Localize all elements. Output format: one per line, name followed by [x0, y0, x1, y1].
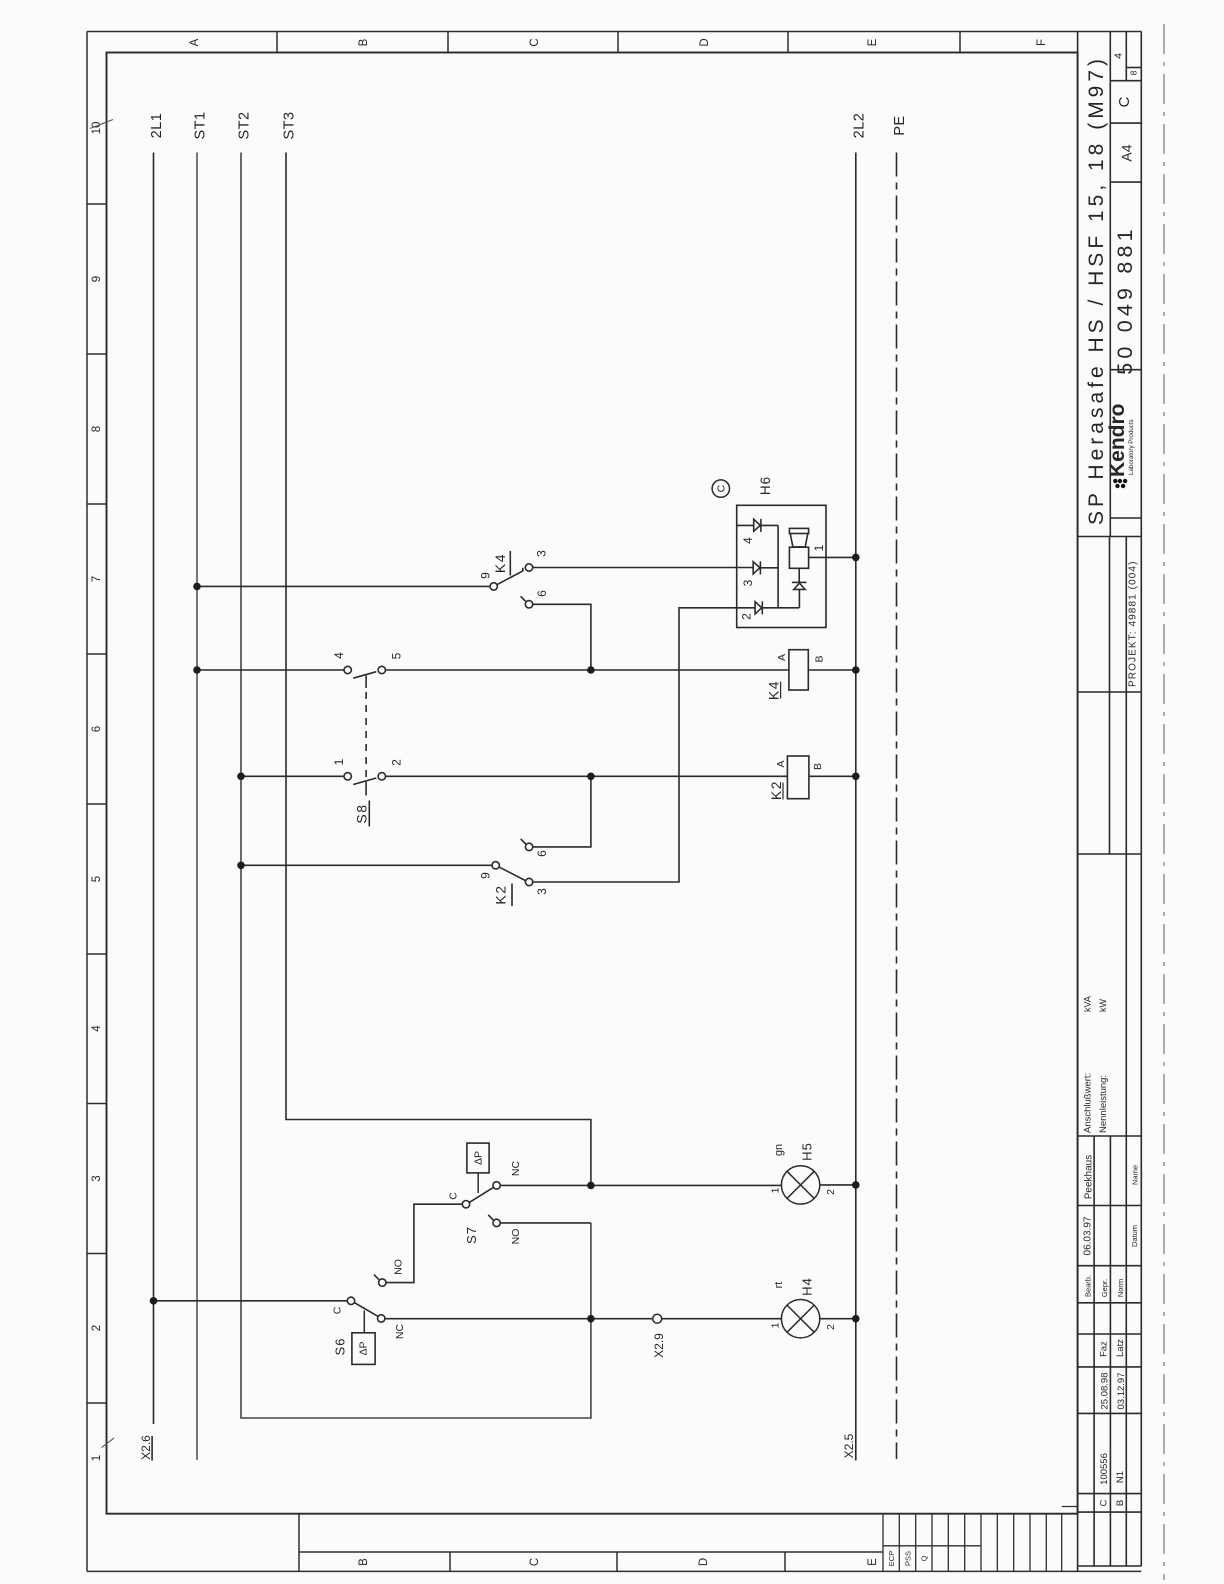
- svg-text:Gepr.: Gepr.: [1100, 1279, 1109, 1297]
- junction ST1/S8-4: [193, 666, 201, 674]
- svg-text:D: D: [699, 38, 711, 46]
- wire 2L1 to S6-C: [154, 1300, 348, 1302]
- wire S8-5 to K4 coil: [386, 669, 789, 671]
- TITLE BLOCK BAND: [1078, 32, 1142, 1572]
- filing strip fine grid: [883, 1507, 1078, 1572]
- junction ST2/S8-1: [237, 773, 245, 781]
- svg-text:E: E: [867, 38, 879, 46]
- svg-text:S6: S6: [333, 1338, 348, 1356]
- svg-text:03.12.97: 03.12.97: [1116, 1373, 1127, 1410]
- svg-text:Kendro: Kendro: [1106, 404, 1129, 478]
- svg-text:K4: K4: [492, 553, 508, 573]
- svg-text:4: 4: [332, 652, 346, 659]
- svg-text:2: 2: [825, 1324, 837, 1330]
- svg-text:C: C: [332, 1306, 344, 1314]
- svg-text:S7: S7: [464, 1226, 479, 1244]
- junction 2L2/K4 coil: [852, 666, 860, 674]
- switch S8 pole 1-2: [344, 773, 385, 827]
- junction ST2/K2-9: [237, 862, 245, 870]
- svg-text:K2: K2: [768, 780, 784, 800]
- wire ST1 to S8 contact 4-5: [197, 669, 344, 671]
- svg-text:rt: rt: [773, 1282, 785, 1289]
- K4 coil label underline: [780, 682, 782, 699]
- fold mark top-left: [90, 120, 113, 129]
- wire H5 to 2L2: [820, 1184, 856, 1186]
- sheet cells: [1125, 32, 1127, 81]
- wire S7-NC to H5: [500, 1184, 781, 1186]
- svg-text:3: 3: [535, 550, 549, 557]
- svg-text:2L1: 2L1: [149, 113, 165, 139]
- wire K2-6 branch: [533, 776, 591, 847]
- S6 actuator link: [363, 1311, 365, 1333]
- junction 2L1/S6-C line: [150, 1297, 158, 1305]
- wire S6-NC to X2.9: [385, 1318, 653, 1320]
- pressure switch S7 dP box: [467, 1143, 489, 1173]
- svg-text:3: 3: [741, 579, 755, 586]
- junction S7-NO/H4 line: [587, 1315, 595, 1323]
- svg-text:Laboratory Products: Laboratory Products: [1128, 419, 1135, 475]
- svg-text:E: E: [867, 1558, 879, 1566]
- svg-text:9: 9: [479, 872, 493, 879]
- svg-text:A: A: [189, 38, 201, 46]
- svg-text:F: F: [1036, 39, 1048, 46]
- svg-text:C: C: [715, 484, 727, 492]
- svg-text:X2.5: X2.5: [842, 1433, 856, 1458]
- relay contact K2: [492, 839, 533, 906]
- svg-text:9: 9: [479, 572, 493, 579]
- svg-text:06.03.97: 06.03.97: [1083, 1216, 1094, 1255]
- svg-text:3: 3: [535, 888, 549, 895]
- filing strip labels: [887, 1551, 929, 1566]
- svg-text:PSS: PSS: [903, 1551, 912, 1566]
- Kendro logo: [1106, 404, 1135, 489]
- approval table: [1078, 1135, 1142, 1137]
- rail 2L2: [855, 153, 857, 1461]
- S7 actuator link: [477, 1173, 479, 1193]
- svg-text:NO: NO: [510, 1229, 522, 1245]
- terminal X2.9: [653, 1314, 662, 1323]
- wire K2 coil to 2L2: [809, 775, 856, 777]
- svg-text:C: C: [1099, 1499, 1110, 1506]
- svg-text:B: B: [814, 655, 826, 662]
- rail ST3: [286, 153, 591, 1186]
- lamp H5: [781, 1166, 819, 1204]
- svg-text:Name: Name: [1131, 1165, 1140, 1185]
- paper right edge dashed: [1163, 24, 1165, 1580]
- svg-text:B: B: [1115, 1500, 1126, 1506]
- signal unit H6: [737, 505, 826, 627]
- junction ST3/S7-NC line: [587, 1182, 595, 1190]
- svg-text:A: A: [775, 760, 787, 767]
- wire K4 coil to 2L2: [808, 669, 856, 671]
- svg-text:1: 1: [91, 1455, 103, 1461]
- svg-text:NC: NC: [394, 1324, 406, 1340]
- pressure switch S6 dP box: [352, 1333, 375, 1365]
- wire H6 pin1 to 2L2: [809, 556, 856, 558]
- svg-text:SP Herasafe HS / HSF 15, 18: SP Herasafe HS / HSF 15, 18 (M97): [1085, 55, 1108, 525]
- svg-text:6: 6: [535, 590, 549, 597]
- svg-text:4: 4: [91, 1025, 103, 1032]
- svg-text:4: 4: [1113, 53, 1125, 59]
- buzzer series diode: [798, 568, 800, 582]
- rail PE dashed: [896, 153, 898, 1460]
- svg-text:ΔP: ΔP: [358, 1341, 370, 1355]
- wire ST2 to K2 contact: [241, 864, 492, 866]
- svg-text:5: 5: [91, 876, 103, 882]
- svg-text:50 049 881: 50 049 881: [1113, 225, 1137, 375]
- wire ST1 to K4 contact: [197, 585, 490, 587]
- svg-text:ΔP: ΔP: [473, 1151, 485, 1165]
- wire S7-NO down: [500, 1222, 591, 1224]
- left grid numbers 10-1: [91, 122, 103, 1462]
- terminal X2.6 underline: [151, 1436, 153, 1461]
- wire ST2 to S8 contact 1-2: [241, 775, 344, 777]
- svg-text:ECP: ECP: [887, 1551, 896, 1566]
- svg-text:Datum: Datum: [1130, 1225, 1139, 1247]
- svg-text:2: 2: [825, 1189, 837, 1195]
- junction K2-6/K2 coil line: [587, 773, 595, 781]
- title block bottom: [1078, 536, 1142, 538]
- svg-text:H6: H6: [758, 476, 773, 495]
- svg-text:NO: NO: [393, 1259, 405, 1275]
- svg-text:Nennleistung:: Nennleistung:: [1098, 1075, 1109, 1133]
- junction K4-6/K4 coil line: [587, 666, 595, 674]
- H6 internal bus: [777, 525, 779, 607]
- svg-text:K2: K2: [493, 884, 509, 904]
- top grid letters A-F: [189, 38, 1048, 46]
- rail 2L1: [153, 153, 155, 1425]
- svg-text:B: B: [812, 763, 824, 770]
- junction 2L2/K2 coil: [852, 773, 860, 781]
- junction 2L2/H5: [852, 1181, 860, 1189]
- svg-text:8: 8: [91, 426, 103, 432]
- svg-text:1: 1: [332, 758, 346, 765]
- svg-text:Q: Q: [920, 1555, 929, 1561]
- svg-text:100556: 100556: [1099, 1453, 1110, 1485]
- title column divider: [1109, 32, 1111, 537]
- wire S8-2 to K2 coil: [386, 775, 788, 777]
- svg-text:C: C: [529, 38, 541, 46]
- junction ST1/K4-9: [193, 583, 201, 591]
- bottom grid strip dividers: [299, 1514, 883, 1572]
- svg-text:4: 4: [741, 537, 755, 544]
- svg-text:kW: kW: [1098, 999, 1108, 1013]
- svg-text:5: 5: [390, 652, 404, 659]
- wire K4-6 branch: [533, 604, 591, 670]
- svg-text:S8: S8: [354, 803, 370, 823]
- svg-text:10: 10: [91, 122, 103, 135]
- svg-text:1: 1: [812, 544, 826, 551]
- svg-text:H5: H5: [800, 1142, 815, 1161]
- svg-text:C: C: [529, 1558, 541, 1566]
- fold mark bottom-left: [102, 1438, 115, 1448]
- changeover switch S7: [462, 1182, 500, 1227]
- svg-text:A4: A4: [1119, 144, 1135, 161]
- relay contact K4: [490, 551, 533, 608]
- svg-text:1: 1: [770, 1187, 782, 1193]
- svg-text:NC: NC: [510, 1161, 522, 1177]
- svg-text:A: A: [776, 654, 788, 661]
- svg-text:X2.6: X2.6: [139, 1435, 153, 1460]
- svg-text:H4: H4: [800, 1277, 815, 1296]
- changeover switch S6: [347, 1275, 386, 1323]
- svg-text:gn: gn: [773, 1144, 785, 1156]
- junction 2L2/H6-1: [852, 554, 860, 562]
- svg-text:ST1: ST1: [193, 111, 209, 139]
- svg-text:C: C: [448, 1192, 460, 1200]
- top grid strip dividers: [277, 32, 960, 53]
- svg-text:C: C: [1116, 96, 1133, 107]
- svg-text:Latz: Latz: [1115, 1339, 1126, 1357]
- svg-text:Norm: Norm: [1116, 1279, 1125, 1297]
- svg-text:B: B: [358, 1558, 370, 1566]
- projekt box: [1109, 537, 1111, 855]
- svg-text:7: 7: [91, 576, 103, 582]
- svg-text:ST2: ST2: [237, 111, 253, 139]
- left grid strip ticks: [87, 204, 107, 1403]
- band right edge: [1140, 32, 1142, 1567]
- K2 coil label underline: [782, 783, 784, 800]
- svg-text:ST3: ST3: [282, 111, 298, 139]
- svg-text:D: D: [698, 1558, 710, 1566]
- H6 diode pin4: [754, 519, 761, 531]
- bottom grid letters: [358, 1558, 879, 1566]
- switch S8 pole 4-5: [344, 666, 385, 778]
- band left edge: [1077, 32, 1079, 1572]
- H6 option mark: [712, 480, 729, 497]
- svg-text:Anschlußwert:: Anschlußwert:: [1083, 1073, 1094, 1133]
- svg-text:9: 9: [91, 276, 103, 282]
- relay coil K4: [789, 650, 808, 690]
- svg-text:1: 1: [770, 1322, 782, 1328]
- H6 pin4 stub: [737, 524, 754, 526]
- wire S7-C loop to S6-NO: [386, 1204, 462, 1282]
- svg-text:K4: K4: [766, 680, 782, 700]
- svg-text:2L2: 2L2: [851, 113, 867, 139]
- svg-text:N1: N1: [1115, 1471, 1126, 1483]
- svg-text:PE: PE: [892, 115, 908, 135]
- svg-text:6: 6: [535, 850, 549, 857]
- svg-text:PROJEKT: 49881 (004): PROJEKT: 49881 (004): [1128, 561, 1139, 688]
- rail ST1: [196, 153, 198, 1461]
- svg-text:2: 2: [390, 759, 404, 766]
- inner border: [107, 53, 1078, 1514]
- svg-text:Bearb.: Bearb.: [1084, 1275, 1093, 1297]
- H6 diode pin2: [755, 602, 762, 614]
- svg-text:3: 3: [91, 1175, 103, 1181]
- junction 2L2/H4: [852, 1315, 860, 1323]
- svg-text:Faz: Faz: [1099, 1341, 1110, 1357]
- svg-text:Peekhaus: Peekhaus: [1084, 1155, 1095, 1199]
- buzzer horn: [789, 528, 808, 533]
- svg-text:X2.9: X2.9: [652, 1333, 666, 1358]
- wire H4 to 2L2: [820, 1318, 856, 1320]
- relay coil K2: [787, 756, 809, 799]
- svg-text:8: 8: [1129, 70, 1139, 75]
- rail ST2: [241, 153, 591, 1419]
- svg-text:2: 2: [91, 1325, 103, 1331]
- svg-text:2: 2: [740, 613, 754, 620]
- wire K2-3 to H6 pin2: [533, 608, 755, 882]
- wire X2.9 to H4: [662, 1318, 782, 1320]
- lamp H4: [781, 1300, 819, 1338]
- svg-text:25.08.98: 25.08.98: [1100, 1373, 1111, 1410]
- H6 diode pin3: [753, 562, 760, 574]
- svg-text:B: B: [358, 38, 370, 46]
- wire K4-3 to H6 pin3: [533, 567, 754, 569]
- svg-text:kVA: kVA: [1083, 996, 1093, 1012]
- svg-text:6: 6: [91, 726, 103, 732]
